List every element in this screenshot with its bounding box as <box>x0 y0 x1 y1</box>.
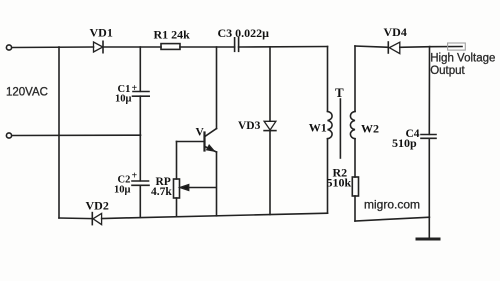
svg-text:VD3: VD3 <box>238 120 261 132</box>
capacitor C4 <box>421 135 436 139</box>
wire terminal2 to C column <box>12 134 141 136</box>
wire R2 bottom to right rail corner <box>354 196 356 221</box>
svg-text:+: + <box>132 171 138 182</box>
wire ground stem <box>428 217 430 238</box>
resistor R2 <box>352 177 358 196</box>
capacitor C3 <box>235 38 239 52</box>
svg-text:migro.com: migro.com <box>364 198 420 212</box>
ground <box>417 238 439 241</box>
wire VD1 to R1 <box>103 46 161 48</box>
bottom rail left segment <box>59 217 92 220</box>
potentiometer RP wiper arrow <box>180 185 216 191</box>
left vertical rail <box>58 47 60 218</box>
wire R1 to collector column junction <box>180 46 235 48</box>
capacitor C1 <box>133 92 150 97</box>
diode VD4 <box>388 42 400 54</box>
wire emitter column <box>216 152 218 216</box>
diode VD2 <box>92 213 101 225</box>
potentiometer column wire top <box>176 142 178 180</box>
bottom rail mid segment to W1 <box>102 213 328 218</box>
wire C4 column bottom <box>428 138 430 217</box>
wire top-left from terminal to VD1 <box>12 46 94 49</box>
wire base of transistor <box>177 141 205 143</box>
right bottom rail <box>355 217 429 221</box>
svg-text:120VAC: 120VAC <box>6 87 48 99</box>
wire W2 top to VD4 <box>355 46 388 47</box>
svg-text:R1 24k: R1 24k <box>154 28 191 42</box>
svg-text:Output: Output <box>430 65 465 77</box>
svg-text:VD1: VD1 <box>90 26 113 40</box>
wire VD3 column top <box>269 47 271 121</box>
svg-text:V: V <box>196 127 205 139</box>
node junction left rail top <box>58 46 60 48</box>
output connector rectangle <box>448 43 466 50</box>
wire junction to output connector <box>430 46 462 48</box>
capacitor C2 <box>132 181 149 185</box>
svg-text:C3 0.022μ: C3 0.022μ <box>218 26 270 40</box>
winding W2 with leads <box>350 46 355 177</box>
terminal input bottom <box>6 133 11 138</box>
terminal input top <box>6 45 11 50</box>
winding W1 with leads <box>328 47 333 214</box>
diode VD3 <box>264 121 276 130</box>
diode VD1 <box>94 41 104 52</box>
wire RP bottom to rail <box>176 198 178 216</box>
wire C1 to C2 <box>139 96 141 181</box>
wire collector column <box>216 47 218 129</box>
transistor V <box>205 129 217 153</box>
wire C2 to bottom rail <box>139 185 141 217</box>
svg-text:510p: 510p <box>392 136 417 150</box>
transformer core <box>339 99 341 158</box>
wire C3 to W1 corner <box>239 46 328 49</box>
potentiometer RP body <box>174 179 180 198</box>
svg-text:VD2: VD2 <box>86 199 109 213</box>
resistor R1 <box>161 44 180 50</box>
svg-text:10μ: 10μ <box>115 93 132 104</box>
svg-text:510k: 510k <box>327 176 352 190</box>
svg-text:4.7k: 4.7k <box>151 186 172 198</box>
wire VD3 column bottom <box>269 131 271 215</box>
wire C column top <box>139 47 141 91</box>
svg-text:VD4: VD4 <box>384 25 407 39</box>
svg-text:W2: W2 <box>361 122 379 136</box>
svg-text:High Voltage: High Voltage <box>430 52 495 64</box>
wire VD4 to output junction <box>400 46 430 49</box>
svg-text:W1: W1 <box>309 121 327 135</box>
svg-text:10μ: 10μ <box>114 185 131 196</box>
svg-text:T: T <box>335 85 344 100</box>
svg-text:+: + <box>132 83 138 94</box>
wire C4 column top <box>428 47 430 135</box>
